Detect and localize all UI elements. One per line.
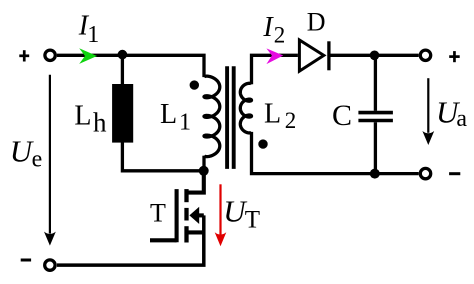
- transistor T body line: [197, 213, 204, 217]
- wire capacitor bottom lead: [374, 122, 377, 173]
- svg-text:L: L: [264, 99, 281, 130]
- svg-text:2: 2: [274, 22, 286, 47]
- junction bottom-right node: [370, 169, 380, 179]
- transistor T channel bar bottom: [184, 226, 188, 242]
- wire top-left rail: [57, 55, 204, 77]
- transistor T channel bar middle: [184, 208, 188, 221]
- svg-text:L: L: [74, 101, 91, 132]
- diode D triangle: [299, 40, 323, 71]
- transistor T body arrow: [189, 207, 199, 224]
- svg-text:T: T: [150, 199, 166, 228]
- label plus input: [19, 50, 29, 61]
- transistor T source lead: [187, 230, 204, 234]
- transistor T gate lead: [150, 238, 177, 242]
- terminal input minus: [45, 260, 55, 270]
- capacitor C plates: [358, 113, 393, 121]
- wire source to bottom rail: [57, 215, 204, 265]
- svg-text:e: e: [32, 147, 43, 173]
- junction top-left node: [118, 50, 128, 60]
- transistor T mosfet drain lead: [187, 171, 204, 193]
- polarity dot L2: [258, 139, 267, 148]
- polarity dot L1: [190, 80, 199, 89]
- wire diode to output plus: [331, 54, 419, 57]
- terminal output plus: [420, 50, 430, 60]
- terminal input plus: [45, 50, 55, 60]
- wire L2 top to diode: [252, 55, 298, 84]
- current arrow I2 magenta: [266, 48, 283, 64]
- transformer core: [227, 66, 234, 169]
- diode D cathode bar: [327, 41, 330, 70]
- svg-text:C: C: [332, 99, 352, 132]
- transistor T gate bar: [175, 189, 179, 242]
- svg-text:I: I: [262, 12, 274, 43]
- wire capacitor top lead: [374, 55, 377, 111]
- wire Lh branch top: [121, 55, 124, 84]
- wire L1 bottom stub: [202, 156, 205, 171]
- svg-text:T: T: [245, 206, 260, 233]
- svg-text:D: D: [307, 8, 326, 37]
- voltage arrow Ue: [44, 75, 56, 246]
- transformer secondary winding L2: [240, 83, 251, 133]
- svg-text:2: 2: [285, 108, 297, 133]
- transistor T channel bar top: [184, 189, 188, 202]
- svg-text:1: 1: [179, 110, 191, 136]
- svg-text:L: L: [160, 99, 177, 130]
- label plus output: [449, 51, 460, 62]
- wire bottom-right rail: [252, 132, 419, 174]
- svg-text:1: 1: [87, 22, 99, 48]
- junction drain node: [199, 166, 209, 176]
- label minus input: [21, 259, 31, 262]
- current arrow I1 green: [79, 48, 97, 64]
- terminal output minus: [420, 168, 430, 178]
- wire Lh bottom to junction: [122, 142, 203, 170]
- svg-text:h: h: [93, 108, 107, 138]
- transformer primary winding L1: [204, 76, 220, 156]
- svg-text:a: a: [456, 106, 467, 132]
- voltage arrow Ua: [422, 78, 434, 145]
- voltage arrow UT red: [215, 184, 227, 246]
- junction top-right node: [370, 51, 380, 61]
- inductor Lh: [112, 84, 133, 143]
- label minus output: [449, 172, 460, 175]
